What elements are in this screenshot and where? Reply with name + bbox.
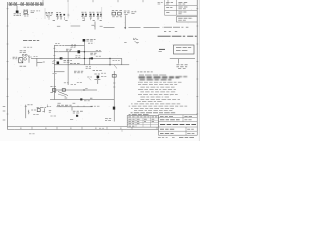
wire bus y58 [50,57,122,59]
title row above block [131,112,133,114]
inductor L2 on bus [62,89,65,92]
zone letters left margin [3,106,6,108]
tick below frame [121,130,123,132]
vertical wire x114 [113,71,115,107]
ground symbol row y26 [57,25,60,27]
label on bus right [113,60,115,62]
capacitor C12 [112,75,116,78]
section label low-voltage supply [23,39,27,41]
ground stubs below y99.5 [58,102,61,104]
tube V6 cluster [97,76,100,79]
capacitor C8 [78,50,81,53]
corner bus y58 down [121,58,123,64]
label below T1 [20,65,23,67]
application table text [128,116,131,118]
label above y65 [70,62,73,64]
stub connecting y58-y65 [89,58,91,64]
title row 2 above block [129,114,131,116]
tube V4 envelope [83,39,86,42]
stamp large text row1 [139,77,188,80]
section divider left [44,8,46,19]
mid bus y90 [52,89,97,91]
label row x74 y71 [74,70,77,72]
relay K5 group [52,89,55,92]
notes list [138,81,143,83]
note row top [138,71,140,73]
marks x87-92 y76-80 [87,76,89,78]
label top of cluster [27,104,29,106]
tp bus wire [57,106,93,108]
stamp light tail [179,76,183,78]
vertical wire x25.8 [25,105,27,119]
diagonal stub y65 [114,65,117,69]
lamp symbols on bus [9,3,10,5]
diagonal wire [58,92,68,96]
zone ticks left edge [7,8,9,10]
terminal strip labels [131,11,133,13]
zone ticks right edge [196,8,198,10]
arrowhead chassis [124,27,126,29]
border frame left [7,2,9,130]
resistor R20 body [60,57,63,59]
stub ticks x114 [113,82,115,84]
stamp large text row2 [140,79,146,81]
resistor bank R10 labels [112,10,114,12]
label on bus y52 [66,48,69,50]
label row under relay bank [112,16,115,18]
capacitor C1 group [45,11,47,13]
wire bus y45 [54,44,58,46]
relay K2 [112,12,116,15]
border frame right [196,0,198,131]
label mid rows [31,109,33,111]
wire below figure box [170,58,195,60]
switch S1 [28,55,30,63]
label cluster A3 [31,10,33,12]
border frame bottom outer [8,129,198,131]
junction stubs row y20 [53,19,55,21]
border frame bottom inner [8,126,198,128]
note paragraph right [162,26,165,28]
motor B1 [24,58,27,61]
revision table text r2 [166,6,169,8]
tp drop [71,107,73,111]
meter M1 [37,109,40,112]
label mid x70 [71,46,73,48]
tube V2 group [89,11,91,13]
tube V1 group [81,11,83,13]
relay K3 [118,12,122,15]
stamp box [177,17,198,22]
fold crease line [67,3,69,19]
wire bus y52 [54,51,101,53]
diode CR1 group [56,11,58,13]
wire heater bus [9,3,44,5]
resistor labels below [176,64,179,66]
label left rows [13,56,15,58]
neon lamp cluster [133,38,134,39]
relay K1 [24,11,28,13]
wire stub y71.8 [54,71,64,73]
connector P1 dark [113,107,115,110]
note paragraph row [139,74,144,76]
label right of tp bus [91,105,93,107]
tube V3 group [97,11,99,13]
wire V4 down [83,42,85,65]
scan speckle noise [10,6,193,135]
label right of bus y52 [90,52,93,54]
application table frame [127,116,158,128]
tiny text in bottom rule [99,127,101,129]
junction dots on y58 [84,58,85,59]
zone numerals bottom [20,127,22,129]
label below R20 [64,60,67,62]
wire stubs below tubes [84,17,86,20]
section divider right [101,7,103,19]
wire bus y65 [54,64,129,66]
vertical wire x68 lower [67,58,69,85]
wire drop from bus [16,5,18,10]
capacitor C20 [76,115,78,117]
wire corner [36,58,38,66]
wire drop K2 [124,15,126,27]
transistor Q1 [16,11,19,13]
labels below buses right [86,66,88,68]
label NOTES [159,48,165,50]
fuse F1 [22,54,24,56]
marks right of cluster [47,106,49,108]
labels above heater bus [9,2,11,4]
long bus y99.5 [50,99,114,101]
inset figure box [174,45,195,54]
terminal E1 [42,107,44,109]
vertical wire x68 [67,52,69,59]
zone ticks bottom rule [31,127,33,130]
label Q1 [14,13,16,15]
junction dot [84,51,85,52]
lamp group bottom-left [28,110,30,114]
footer small text under frame left [29,133,31,135]
label right of C8 [75,55,77,57]
tp ticks on bus [59,106,61,107]
footer doc number [158,136,161,138]
scattered marks lower center [64,82,66,84]
label V4 [86,38,89,40]
heavy note rule [158,35,171,37]
resistor R21 on y58 [91,57,93,59]
junction dot on bus y90 [83,89,84,90]
components on y99.5 [65,97,68,99]
scan edge right [198,0,200,141]
label on bus y45 [59,44,61,46]
tp labels [73,110,76,112]
label T1 [20,50,23,52]
stub ticks on rail [53,47,55,49]
transistor Q5 [57,62,60,65]
lamp pair on bus y45 [71,45,73,47]
wire segment right [104,26,115,28]
label above T1 [24,46,27,48]
revision table frame [164,0,166,15]
revision table text r1 [166,1,169,3]
title area text [160,116,164,118]
zone ticks top edge [42,0,44,2]
wire T1 to main [31,57,50,59]
revision table text r3 [166,11,169,13]
label above tp bus [57,104,60,106]
faint group x68 [67,13,69,15]
junction arrows on buses [109,58,111,64]
revision table used-on column [158,1,160,3]
label left of vertical [55,43,57,45]
faint marks x36 [36,10,38,12]
transformer T1 box [19,58,23,63]
capacitor C5 labels [124,10,127,12]
label near P1 [105,118,108,120]
vertical rail main [53,45,55,99]
title area frame right [159,115,198,135]
